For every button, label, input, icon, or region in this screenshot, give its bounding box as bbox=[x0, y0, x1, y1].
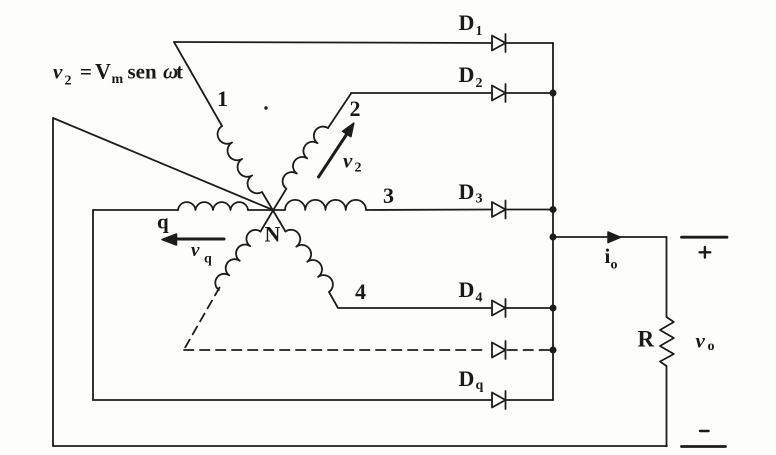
diode Dq bbox=[492, 393, 506, 408]
junction dot D2 bbox=[550, 90, 557, 97]
wire winding2 horizontal to D2 bbox=[351, 92, 492, 94]
diode D3 bbox=[492, 202, 506, 217]
winding L1 coil bbox=[218, 126, 273, 211]
diode D2 bbox=[492, 86, 506, 101]
wire outer loop bottom bbox=[53, 445, 667, 447]
wire inner loop left vertical bbox=[92, 210, 94, 400]
svg-text:D: D bbox=[459, 62, 475, 87]
svg-text:V: V bbox=[95, 59, 111, 84]
svg-text:4: 4 bbox=[476, 291, 483, 306]
wire cathode bus bbox=[552, 43, 554, 400]
svg-text:1: 1 bbox=[476, 24, 483, 39]
wire dashed diode to bus bbox=[508, 349, 550, 351]
wire D2 to bus bbox=[506, 92, 554, 94]
label plus bbox=[700, 247, 711, 258]
winding L4 coil bbox=[273, 211, 333, 292]
resistor R bbox=[660, 317, 674, 366]
arrow vq head bbox=[162, 234, 177, 245]
wire winding4 corner bbox=[329, 292, 492, 308]
wire outer loop left vertical bbox=[52, 118, 54, 446]
svg-text:o: o bbox=[708, 339, 715, 354]
svg-text:2: 2 bbox=[65, 74, 72, 89]
wire winding1 horizontal to D1 bbox=[174, 42, 492, 43]
svg-text:D: D bbox=[459, 277, 475, 302]
arrow v2 head bbox=[343, 123, 354, 137]
terminal bar plus bbox=[682, 236, 728, 239]
wire output to load bbox=[553, 236, 667, 238]
junction dot D3 bbox=[550, 206, 557, 213]
label minus bbox=[700, 430, 709, 432]
node output junction bbox=[550, 234, 557, 241]
wire D1 to bus bbox=[506, 42, 554, 44]
winding Lq coil bbox=[178, 202, 248, 210]
wire dashed horizontal to diode bbox=[184, 349, 487, 351]
arrow v2 shaft bbox=[319, 133, 348, 177]
svg-text:2: 2 bbox=[350, 96, 361, 121]
svg-text:3: 3 bbox=[476, 192, 483, 207]
svg-text:q: q bbox=[157, 210, 169, 234]
svg-text:1: 1 bbox=[217, 86, 228, 111]
svg-text:v: v bbox=[696, 329, 706, 353]
svg-text:q: q bbox=[476, 378, 484, 393]
junction dot D4 bbox=[550, 305, 557, 312]
svg-text:D: D bbox=[459, 10, 475, 35]
svg-text:N: N bbox=[265, 222, 281, 247]
wire load top vertical bbox=[666, 237, 668, 317]
svg-text:o: o bbox=[611, 258, 618, 273]
diode Dq2 (dashed branch) bbox=[492, 343, 506, 358]
svg-text:v: v bbox=[191, 240, 200, 261]
wire Dq to bus bbox=[506, 399, 554, 401]
wire load bottom vertical bbox=[666, 366, 668, 446]
terminal bar minus bbox=[682, 445, 726, 448]
svg-text:R: R bbox=[638, 327, 655, 352]
svg-text:=: = bbox=[80, 60, 92, 84]
svg-text:sen: sen bbox=[128, 60, 157, 84]
svg-text:v: v bbox=[343, 149, 353, 173]
svg-text:q: q bbox=[204, 252, 212, 267]
wire coilq to N bbox=[248, 209, 273, 211]
svg-text:v: v bbox=[53, 60, 63, 84]
winding L2 coil bbox=[273, 127, 328, 211]
wire coilq left terminal bbox=[93, 209, 178, 211]
wire winding2 diagonal to corner bbox=[328, 94, 351, 129]
wire N to coil3 bbox=[273, 209, 285, 211]
wire D4 to bus bbox=[506, 307, 554, 309]
label source equation bbox=[53, 59, 183, 89]
wire D3 to bus bbox=[506, 209, 554, 211]
wire outer loop diagonal N to left bbox=[53, 118, 273, 210]
svg-text:3: 3 bbox=[383, 183, 394, 208]
junction dot dashed branch bbox=[550, 347, 557, 354]
node dot (polarity mark) bbox=[264, 106, 267, 109]
arrow io head bbox=[608, 232, 621, 243]
winding L3 coil bbox=[285, 200, 366, 210]
svg-text:D: D bbox=[459, 179, 475, 204]
diode D4 bbox=[492, 301, 506, 316]
winding Lq2 coil (dashed winding) bbox=[215, 211, 273, 291]
wire dashed diagonal bbox=[184, 288, 220, 350]
svg-text:4: 4 bbox=[355, 279, 366, 304]
wire winding3 to D3 bbox=[366, 209, 492, 212]
wire winding1 top diagonal bbox=[174, 42, 222, 126]
svg-text:D: D bbox=[459, 366, 475, 391]
svg-text:2: 2 bbox=[355, 161, 362, 176]
wire inner loop bottom to Dq bbox=[93, 399, 492, 401]
svg-text:2: 2 bbox=[476, 76, 483, 91]
svg-text:m: m bbox=[112, 72, 124, 87]
svg-text:t: t bbox=[176, 60, 183, 84]
arrow vq shaft bbox=[174, 238, 224, 241]
diode D1 bbox=[492, 36, 506, 51]
